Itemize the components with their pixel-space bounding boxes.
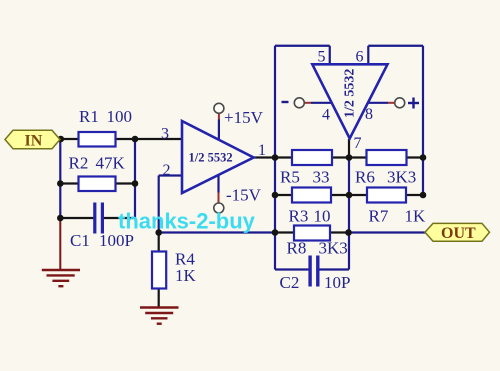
svg-text:3: 3 [161,126,169,143]
svg-text:R8: R8 [287,239,307,258]
wire: R8 left stub [275,231,294,233]
resistor R8 [294,226,330,241]
svg-text:C2: C2 [280,273,300,292]
node: R8 right / OUT junction [345,229,352,236]
wire: feedback row to node at x275 [159,231,275,233]
port IN flag [5,130,60,149]
wire: C2 bottom left segment [275,268,309,270]
svg-text:8: 8 [365,106,373,123]
wire: IN flag to R1 (node IN) [56,138,79,140]
svg-text:R1: R1 [79,107,99,126]
wire: left rail vertical (IN node down to C1) [59,139,61,218]
svg-text:100P: 100P [99,231,134,250]
wire: R6 right segment [407,156,424,158]
svg-text:IN: IN [25,133,43,150]
plus sign at pin 8 [408,102,419,104]
svg-text:C1: C1 [70,231,90,250]
resistor R5 [292,150,332,165]
junction dots [57,136,426,236]
node: C1 left junction [57,215,64,222]
node: U1 output at x275 [272,154,279,161]
ground (left, from C1 node) [42,218,80,286]
wire: U2 pin 8 red stub [388,102,395,104]
capacitor C2 [308,256,311,287]
minus sign at pin 4 [282,101,289,103]
node: R3-R7 junction [346,192,353,199]
svg-text:7: 7 [354,135,362,152]
node: pin7 junction [346,154,353,161]
wire: R2 row left segment [60,182,78,184]
svg-text:R2: R2 [69,154,89,173]
wire: C2 bottom right segment [320,268,350,270]
wire: U2 pin 6 stub [367,46,369,65]
wire: U2 pin 4 red stub [304,102,311,104]
capacitor C1 [93,203,96,234]
svg-text:10: 10 [314,207,331,226]
wire: +15V stub red part [218,114,220,120]
node: R2 right junction [132,180,139,187]
power terminal -15V circle [214,203,224,213]
wire: vertical from R1 junction down to C1 corner [134,139,136,218]
ground (below R4) [140,308,179,324]
node: R6 right junction [420,154,427,161]
wire: U2 pin 7 stub (black) [348,139,350,158]
node: IN junction [58,136,65,143]
svg-text:6: 6 [356,49,364,66]
wire: R5 to R6 row segment [332,156,367,158]
svg-text:2: 2 [163,162,171,179]
node: R8 left junction [272,229,279,236]
svg-text:5: 5 [318,49,326,66]
terminal circle U2 pin 4 [294,98,304,108]
wire: U2 pin 5 stub [329,46,331,65]
wire: U1 output pin1 row to R5 [254,156,292,158]
svg-text:thanks-2-buy: thanks-2-buy [118,209,256,234]
wire: OUT row to flag [348,231,426,233]
svg-text:3K3: 3K3 [319,239,348,258]
resistor R7 [367,188,406,203]
svg-text:OUT: OUT [441,225,476,242]
resistor R2 [79,177,116,192]
wire: U2 pin 8 lead [368,102,388,104]
wire: left rail of U2 loop (x275) top to C2 corner [274,46,276,270]
svg-text:1K: 1K [175,266,197,285]
resistor R6 [367,150,407,165]
wire: C1 row left segment [60,217,93,219]
svg-text:R5: R5 [280,168,300,187]
wire: -15V stub blue part [217,176,219,193]
svg-text:4: 4 [322,107,330,124]
wire: R7 right segment [406,194,423,196]
wire: R4 top stem [158,233,160,252]
terminal circle U2 pin 8 [395,98,405,108]
svg-text:1/2 5532: 1/2 5532 [189,151,233,165]
svg-text:100: 100 [107,107,133,126]
op-amp U1 1/2 5532 [182,121,254,193]
wire: R8 right stub [330,231,348,233]
resistor R1 [79,132,116,147]
op-amp U2 1/2 5532 (inverted triangle) [312,64,387,138]
svg-text:47K: 47K [96,154,126,173]
wire: R4 bottom stem to ground [158,289,160,307]
svg-text:3K3: 3K3 [387,168,416,187]
svg-text:R7: R7 [369,207,389,226]
resistor R4 [152,252,166,289]
port OUT flag [425,223,490,241]
svg-text:33: 33 [313,168,330,187]
wire: U2 pin 4 lead [311,102,332,104]
svg-text:R6: R6 [355,168,375,187]
wire: +15V stub blue part [218,120,220,141]
node: feedback-R4 junction [155,229,162,236]
wire: right rail of U2 loop (x423) [422,46,424,195]
wire: op-amp U1 pin 2 horizontal [159,174,182,176]
wire: -15V stub red part [218,193,220,204]
wire: C1 row right segment [104,217,135,219]
wire: R2 row right segment [116,182,136,184]
wire: top rail left segment to pin5 [275,45,330,47]
svg-text:10P: 10P [324,273,350,292]
node: R7 right junction [420,192,427,199]
svg-text:1K: 1K [405,207,427,226]
svg-text:R3: R3 [289,207,309,226]
wire: R3 to R7 row segment [331,194,367,196]
wire: R3 row left segment [275,194,292,196]
wire: top rail right segment to pin6 [368,45,423,47]
svg-text:-15V: -15V [226,186,262,205]
power terminal +15V circle [214,103,224,113]
svg-text:1: 1 [258,142,266,159]
wire: pin2 vertical down to feedback node [158,176,160,233]
wire: vertical rail x349 down through R3 row to C2 [348,158,350,270]
wire: R1 to op-amp U1 pin 3 [116,138,183,140]
node: R2 left junction [57,180,64,187]
svg-text:1/2 5532: 1/2 5532 [343,69,358,118]
resistor R3 [292,188,331,203]
node: R3 left junction [272,192,279,199]
svg-text:+15V: +15V [224,108,264,127]
node: R1 output junction [132,136,139,143]
